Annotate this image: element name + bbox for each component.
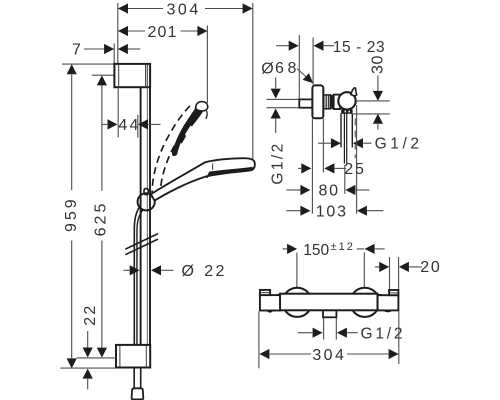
svg-text:201: 201: [147, 24, 177, 41]
svg-text:150: 150: [303, 242, 329, 259]
svg-text:Ø: Ø: [261, 60, 273, 77]
ext line 304 right (to shower head): [252, 3, 254, 159]
svg-text:304: 304: [166, 1, 201, 18]
valve body: [334, 95, 340, 110]
hose coupling lines: [341, 113, 352, 147]
dim 201: line: [118, 30, 207, 32]
hose nipple under knob: [342, 110, 352, 113]
rail (wall bar): [140, 87, 142, 345]
slider knob: [138, 193, 155, 210]
svg-text:4: 4: [118, 117, 127, 134]
svg-text:30: 30: [369, 55, 386, 74]
dashed hand shower raised position: left dashed line: [152, 104, 191, 197]
slider nub: [144, 189, 148, 195]
svg-text:304: 304: [312, 347, 346, 364]
raised head tip cap: [196, 102, 208, 111]
svg-text:959: 959: [63, 196, 80, 232]
dim G1/2 right (hose): [318, 142, 331, 144]
svg-text:22: 22: [82, 303, 99, 325]
svg-text:2: 2: [216, 263, 225, 280]
dim G1/2 bottom: [298, 332, 313, 334]
wall flange: [312, 85, 323, 118]
svg-text:±12: ±12: [331, 241, 355, 253]
ext lines of dim 7: [114, 3, 118, 64]
dashed right line: [160, 142, 177, 198]
left knob (temperature): [260, 295, 280, 310]
inlet stub: [299, 99, 312, 107]
inlet circles: [283, 288, 312, 317]
svg-text:7: 7: [72, 42, 81, 59]
dim 150 +-12: [283, 248, 288, 250]
small tick on head: [212, 163, 214, 170]
dim 304 top: arrows: [118, 3, 128, 13]
dim 304 bottom: [259, 349, 269, 359]
svg-text:15 - 23: 15 - 23: [333, 39, 385, 56]
dim 44: [102, 123, 107, 125]
ext line 625 bottom: [77, 357, 116, 359]
dim 625 vertical: [97, 75, 107, 85]
svg-text:4: 4: [130, 117, 139, 134]
dim diameter 22: [124, 269, 130, 271]
svg-text:103: 103: [316, 203, 348, 220]
svg-text:25: 25: [344, 161, 365, 178]
knurled nut: [323, 95, 330, 109]
dim 103: [286, 210, 300, 212]
hand shower handle and head (lowered position): [151, 158, 255, 200]
dim 80: [286, 189, 300, 191]
handle lever pin: [351, 88, 357, 96]
hose from slider down: [134, 207, 139, 345]
right knob (shut-off): [378, 295, 399, 310]
ext line 959 top: [62, 63, 114, 65]
svg-text:Ø: Ø: [181, 263, 193, 280]
dim 25: [298, 167, 301, 169]
svg-text:80: 80: [318, 183, 339, 200]
break marks across rail: [125, 234, 158, 255]
dim 304 top: line: [118, 8, 253, 10]
svg-text:G1/2: G1/2: [269, 141, 286, 184]
dashed axis: [354, 119, 356, 159]
svg-text:20: 20: [420, 259, 441, 276]
dim 20: [375, 266, 379, 268]
dim G1/2 left (inlet): [275, 78, 277, 89]
dim 959 vertical: [67, 64, 77, 74]
dim 201: arrows: [118, 26, 128, 36]
svg-text:G1/2: G1/2: [375, 136, 423, 153]
holder inner lines: [119, 64, 148, 87]
svg-text:625: 625: [93, 201, 110, 237]
body bar: [280, 294, 378, 311]
bottom outlet: [323, 310, 336, 317]
ext line 959 bottom: [61, 367, 117, 369]
spray face dark band: [206, 167, 253, 178]
hose end cone: [132, 388, 144, 399]
hose below bracket: [134, 368, 141, 389]
bottom bracket: [116, 345, 150, 368]
wall bracket top (holder): [114, 64, 150, 87]
svg-text:2: 2: [204, 263, 213, 280]
svg-text:8: 8: [288, 60, 297, 77]
rail inner highlight line: [146, 87, 148, 345]
inlet stub ext lines: [267, 99, 300, 107]
ext line 625 top: [92, 74, 114, 76]
svg-text:6: 6: [275, 60, 284, 77]
dim 15-23: [276, 45, 289, 47]
raised head spray face (dark): [172, 104, 204, 156]
ext line 201 right (to raised head): [206, 26, 208, 104]
handle knob: [338, 92, 355, 109]
